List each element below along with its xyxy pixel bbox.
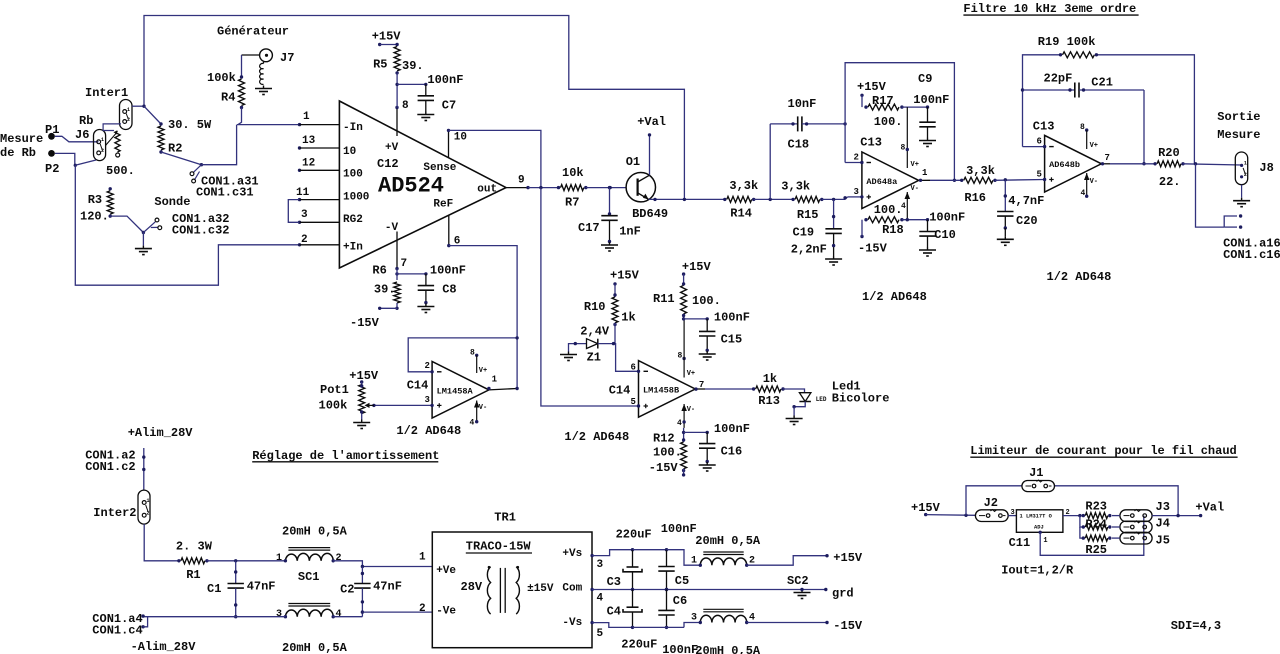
svg-text:-Vs: -Vs xyxy=(562,617,582,629)
svg-text:100.: 100. xyxy=(653,445,682,459)
svg-text:J1: J1 xyxy=(1029,466,1043,480)
label C9 xyxy=(918,72,932,86)
svg-text:+Alim_28V: +Alim_28V xyxy=(128,426,194,440)
svg-text:+15V: +15V xyxy=(682,260,712,274)
wire to +15V xyxy=(747,554,829,565)
capacitor C6 xyxy=(658,588,674,629)
svg-text:R17: R17 xyxy=(872,94,894,108)
label R19 100k xyxy=(1038,35,1096,49)
svg-text:C2: C2 xyxy=(340,583,354,597)
svg-text:V-: V- xyxy=(479,404,487,412)
pin 5 (1458B) xyxy=(541,188,648,409)
wire +In loop xyxy=(75,165,299,285)
pin 1 xyxy=(237,111,339,126)
resistor R19 xyxy=(1059,52,1098,58)
resistor R2 xyxy=(144,106,201,165)
label 1nF xyxy=(619,225,641,239)
svg-text:CON1.c16: CON1.c16 xyxy=(1223,248,1280,262)
svg-text:1: 1 xyxy=(492,374,498,384)
svg-text:100nF: 100nF xyxy=(913,93,949,107)
svg-text:39.: 39. xyxy=(374,282,396,296)
svg-text:7: 7 xyxy=(699,380,704,390)
label R18 xyxy=(882,223,904,237)
label C1 xyxy=(207,582,221,596)
svg-text:2. 3W: 2. 3W xyxy=(176,539,213,553)
svg-text:7: 7 xyxy=(401,258,408,270)
label C3 xyxy=(607,575,621,589)
svg-text:100.: 100. xyxy=(692,294,721,308)
label 100. (R17) xyxy=(874,115,903,129)
inductor SC1 coil 1-2 xyxy=(276,548,342,564)
supply +15V (R17) xyxy=(857,80,929,110)
pin 1 out (C13a) xyxy=(919,168,930,182)
label C14 (B) xyxy=(609,384,631,398)
label Z1 xyxy=(587,351,601,365)
connector J3 xyxy=(1112,510,1178,522)
svg-text:V+: V+ xyxy=(687,370,695,378)
label Bicolore xyxy=(832,392,890,406)
svg-text:C12: C12 xyxy=(377,157,399,171)
label +Alim_28V xyxy=(128,426,194,440)
label 100nF (C7) xyxy=(427,73,463,87)
label 100nF (C15) xyxy=(714,311,750,325)
label R15 xyxy=(797,208,819,222)
pin 7 out (1458B) xyxy=(694,380,705,391)
pin 3 (C13a) xyxy=(843,187,871,200)
node R6-C8 xyxy=(395,272,427,275)
wire R24 branch xyxy=(1080,516,1083,527)
svg-text:R4: R4 xyxy=(221,91,235,105)
supply -15V (R12) xyxy=(681,428,687,477)
label 100k (Pot1) xyxy=(319,399,348,413)
label 100nF (C5) xyxy=(661,522,697,536)
svg-text:-Ve: -Ve xyxy=(436,606,456,618)
label 100nF (C16) xyxy=(714,422,750,436)
svg-text:C8: C8 xyxy=(442,282,456,296)
op-amp C13 AD648a xyxy=(862,152,919,209)
wire C20 gnd stub xyxy=(1004,228,1006,236)
svg-text:30. 5W: 30. 5W xyxy=(168,118,212,132)
svg-text:C21: C21 xyxy=(1091,75,1113,89)
label CON1.c31 xyxy=(196,186,254,200)
svg-text:J2: J2 xyxy=(984,496,998,510)
svg-text:O1: O1 xyxy=(626,155,640,169)
label R7 xyxy=(565,196,579,210)
svg-text:R24: R24 xyxy=(1085,518,1107,532)
pin 6 (1458B) xyxy=(631,363,649,373)
label 20mH 0,5A (SC1 top) xyxy=(282,525,348,539)
label CON1.c16 xyxy=(1223,248,1280,262)
svg-text:500.: 500. xyxy=(106,164,135,178)
zener Z1 xyxy=(560,339,615,361)
capacitor C8 xyxy=(417,274,434,313)
label R24 xyxy=(1085,518,1107,532)
wire +Val xyxy=(1176,514,1202,517)
pin 2 (C13a) xyxy=(845,153,871,165)
V+ pin C13a xyxy=(901,107,919,169)
capacitor C20 xyxy=(997,180,1014,246)
svg-text:4: 4 xyxy=(677,419,682,428)
svg-text:R13: R13 xyxy=(758,394,780,408)
label 3,3k (R15) xyxy=(781,180,810,194)
wire C2 to TR1 -Ve xyxy=(362,611,432,613)
pin 1 out (1458A) xyxy=(487,374,519,390)
svg-text:Z1: Z1 xyxy=(587,351,601,365)
label -15V (R12) xyxy=(649,461,679,475)
svg-text:Sense: Sense xyxy=(423,162,456,174)
svg-text:+15V: +15V xyxy=(833,551,863,565)
svg-text:-Alim_28V: -Alim_28V xyxy=(131,640,197,654)
svg-text:grd: grd xyxy=(832,587,854,601)
label 100. (R11) xyxy=(692,294,721,308)
resistor R7 xyxy=(557,185,588,191)
svg-text:3: 3 xyxy=(691,613,697,624)
svg-text:R19 100k: R19 100k xyxy=(1038,35,1096,49)
svg-text:V-: V- xyxy=(911,185,919,193)
connector Sonde fork xyxy=(142,218,162,234)
capacitor C3 xyxy=(623,548,642,591)
svg-text:C19: C19 xyxy=(793,226,815,240)
svg-text:100nF: 100nF xyxy=(661,522,697,536)
svg-text:100.: 100. xyxy=(874,115,903,129)
label R1 xyxy=(186,568,200,582)
label 100nF (C10) xyxy=(929,211,965,225)
label J7 xyxy=(280,51,294,65)
label Mesure de Rb xyxy=(0,132,43,160)
svg-text:Limiteur de courant pour le fi: Limiteur de courant pour le fil chaud xyxy=(970,444,1236,458)
svg-text:C13: C13 xyxy=(1033,119,1055,133)
svg-text:+V: +V xyxy=(385,142,399,154)
svg-text:20mH 0,5A: 20mH 0,5A xyxy=(282,641,348,654)
svg-text:C6: C6 xyxy=(673,594,687,608)
label C17 xyxy=(578,221,600,235)
label 20mH 0,5A (SC2 bottom) xyxy=(695,644,761,654)
svg-text:5: 5 xyxy=(597,628,604,640)
label 39. (R6) xyxy=(374,282,396,296)
svg-text:P2: P2 xyxy=(45,162,59,176)
svg-text:1k: 1k xyxy=(621,310,635,324)
resistor R1 xyxy=(177,558,208,564)
title Filtre 10 kHz 3eme ordre xyxy=(963,2,1138,16)
svg-text:11: 11 xyxy=(296,187,310,199)
label 1k (R13) xyxy=(763,372,777,386)
svg-text:Sortie: Sortie xyxy=(1217,110,1260,124)
label 1/2 AD648 (a) xyxy=(862,290,927,304)
label R4 xyxy=(221,91,235,105)
svg-text:1: 1 xyxy=(922,168,928,178)
label Led1 xyxy=(832,380,861,394)
resistor R14 xyxy=(723,196,755,202)
label -Vs xyxy=(562,617,582,629)
svg-text:100nF: 100nF xyxy=(427,73,463,87)
label -Alim_28V xyxy=(131,640,197,654)
svg-text:100nF: 100nF xyxy=(714,311,750,325)
svg-text:220uF: 220uF xyxy=(621,638,657,652)
svg-text:J5: J5 xyxy=(1156,534,1170,548)
svg-text:100nF: 100nF xyxy=(714,422,750,436)
pin 8 +V xyxy=(395,100,409,136)
label J2 xyxy=(984,496,998,510)
wire grd rail xyxy=(667,588,828,599)
label -Ve xyxy=(436,606,456,618)
svg-text:AD524: AD524 xyxy=(378,174,444,199)
svg-text:220uF: 220uF xyxy=(616,528,652,542)
wire node to J6 bottom xyxy=(75,160,96,165)
wire sense-out xyxy=(449,130,541,187)
svg-text:C9: C9 xyxy=(918,72,932,86)
capacitor C19 xyxy=(825,199,842,265)
label C13 (b) xyxy=(1033,119,1055,133)
wire Inter1 pin2 to pot Rb xyxy=(103,124,121,131)
svg-text:4: 4 xyxy=(336,609,342,620)
connector J6 xyxy=(94,130,106,161)
supply -15V (R18) xyxy=(858,217,929,256)
pin 10 Sense xyxy=(447,129,467,158)
wire feedback loop C13a xyxy=(845,63,956,182)
V- pin C13a xyxy=(901,185,919,220)
wire emitter row xyxy=(649,198,725,201)
V+ pin 1458B xyxy=(678,320,696,379)
label -15V (R6) xyxy=(350,316,380,330)
terminal P1 xyxy=(45,123,59,140)
svg-text:+Val: +Val xyxy=(1195,501,1224,515)
label TRACO-15W xyxy=(466,540,532,554)
svg-text:4: 4 xyxy=(470,419,475,428)
label SDI=4,3 xyxy=(1171,619,1221,633)
svg-text:3: 3 xyxy=(301,209,308,221)
label C7 xyxy=(442,99,456,113)
pin 6 (C13b) xyxy=(1023,137,1054,149)
resistor R6 xyxy=(378,269,400,310)
wire bottom rail xyxy=(143,616,362,618)
svg-text:1: 1 xyxy=(127,107,130,113)
svg-text:3: 3 xyxy=(1011,509,1015,517)
svg-text:+In: +In xyxy=(343,242,363,254)
resistor R4 xyxy=(238,55,245,125)
svg-text:120.: 120. xyxy=(80,209,109,223)
svg-text:LED: LED xyxy=(816,396,827,403)
label 2 (TR1 in) xyxy=(419,603,426,615)
svg-text:V-: V- xyxy=(1090,178,1098,186)
wire feedback 1458A xyxy=(408,336,519,373)
pin 5 (C13b) xyxy=(1037,170,1054,182)
wire R14-R15 xyxy=(754,198,793,201)
svg-text:-In: -In xyxy=(343,122,363,134)
resistor R16 xyxy=(960,177,997,183)
connector J2 xyxy=(975,510,1008,522)
wire generator net (top loop) xyxy=(144,16,684,200)
V- pin 1458A xyxy=(470,401,488,428)
title Reglage de l'amortissement xyxy=(252,449,439,463)
label -15V (psu) xyxy=(833,619,863,633)
label +Val (limiter) xyxy=(1195,501,1224,515)
label Inter1 xyxy=(85,86,128,100)
label C4 xyxy=(607,605,621,619)
svg-text:2: 2 xyxy=(301,234,308,246)
label 10nF (C18) xyxy=(788,97,817,111)
svg-text:2: 2 xyxy=(425,361,430,371)
svg-text:ADJ: ADJ xyxy=(1034,525,1044,531)
svg-text:Iout=1,2/R: Iout=1,2/R xyxy=(1001,563,1074,577)
svg-text:V+: V+ xyxy=(1090,142,1098,150)
svg-text:R23: R23 xyxy=(1085,500,1107,514)
svg-text:+15V: +15V xyxy=(349,369,379,383)
label C2 xyxy=(340,583,354,597)
label 2. 3W xyxy=(176,539,213,553)
V- pin 1458B xyxy=(677,404,695,428)
inductor SC1 coil 3-4 xyxy=(276,604,342,621)
label 100nF (C6) xyxy=(662,643,698,654)
connector CON1.4 xyxy=(92,612,147,637)
svg-text:47nF: 47nF xyxy=(247,579,276,593)
svg-text:C1: C1 xyxy=(207,582,221,596)
capacitor C18 xyxy=(770,116,847,199)
connector J7 xyxy=(242,49,273,95)
svg-text:J6: J6 xyxy=(75,128,89,142)
svg-text:C13: C13 xyxy=(860,136,882,150)
capacitor C9 xyxy=(919,107,936,146)
label C5 xyxy=(675,574,689,588)
label Inter2 xyxy=(93,506,136,520)
wire to CON1.16 xyxy=(1196,164,1225,227)
label 2,2nF xyxy=(791,243,827,257)
resistor R3 xyxy=(107,187,113,218)
connector CON1.a31 fork xyxy=(190,165,201,183)
label R20 xyxy=(1158,146,1180,160)
svg-text:8: 8 xyxy=(901,144,906,153)
pin 7 -V xyxy=(395,232,407,271)
label C21 xyxy=(1091,75,1113,89)
label +15V (limiter) xyxy=(911,501,941,516)
label CON1.a32 xyxy=(172,212,230,226)
svg-text:-15V: -15V xyxy=(833,619,863,633)
V+ pin C13b xyxy=(1080,123,1098,150)
title Limiteur de courant pour le fil chaud xyxy=(970,444,1237,458)
svg-text:4,7nF: 4,7nF xyxy=(1008,194,1044,208)
svg-text:2: 2 xyxy=(101,148,104,154)
svg-text:CON1.c2: CON1.c2 xyxy=(85,460,135,474)
capacitor C10 xyxy=(919,220,936,256)
svg-text:13: 13 xyxy=(302,135,316,147)
label R13 xyxy=(758,394,780,408)
label 100. (R12) xyxy=(653,445,682,459)
resistor R24 xyxy=(1082,524,1112,530)
connector J4 xyxy=(1112,521,1152,533)
label R2 xyxy=(168,142,182,156)
wire R3 to sonde xyxy=(110,216,143,232)
label C6 xyxy=(673,594,687,608)
capacitor C16 xyxy=(684,431,716,471)
node R5-C7 xyxy=(395,83,427,86)
label 39. (R5) xyxy=(402,59,424,73)
label TR1 xyxy=(494,511,516,525)
op-amp C13 AD648b xyxy=(1045,135,1102,192)
svg-text:2: 2 xyxy=(127,117,130,123)
pin 13 xyxy=(298,135,340,150)
svg-text:R6: R6 xyxy=(372,264,386,278)
svg-text:C18: C18 xyxy=(788,138,810,152)
svg-text:1: 1 xyxy=(1244,161,1247,167)
op-amp C14 LM1458B xyxy=(639,361,696,418)
svg-text:C16: C16 xyxy=(721,445,743,459)
svg-text:6: 6 xyxy=(1037,137,1042,147)
resistor R23 xyxy=(1082,513,1112,519)
svg-text:1: 1 xyxy=(419,552,426,564)
label J8 xyxy=(1259,161,1273,175)
svg-text:C11: C11 xyxy=(1009,536,1031,550)
svg-text:Rb: Rb xyxy=(79,114,93,128)
svg-text:8: 8 xyxy=(1080,123,1085,132)
V- pin C13b xyxy=(1081,173,1099,198)
label R25 xyxy=(1085,543,1107,557)
label Sonde xyxy=(154,195,190,209)
pin 3 (1458A) xyxy=(372,395,441,408)
svg-text:C4: C4 xyxy=(607,605,621,619)
resistor R13 xyxy=(752,386,785,392)
svg-text:1: 1 xyxy=(147,498,150,504)
wire to -15V xyxy=(747,621,829,624)
label R3 xyxy=(88,193,102,207)
svg-text:1nF: 1nF xyxy=(619,225,641,239)
svg-text:R25: R25 xyxy=(1085,543,1107,557)
svg-text:100nF: 100nF xyxy=(929,211,965,225)
supply +15V (R10) xyxy=(610,269,640,344)
label 3,3k (R16) xyxy=(966,164,995,178)
svg-text:+15V: +15V xyxy=(610,269,640,283)
svg-text:Inter2: Inter2 xyxy=(93,506,136,520)
supply +15V (R5) xyxy=(372,29,402,107)
svg-text:LM1458B: LM1458B xyxy=(643,385,679,395)
wire -Vs out xyxy=(590,621,632,640)
label 20mH 0,5A (SC1 bottom) xyxy=(282,641,348,654)
label CON1.a16 xyxy=(1223,237,1280,251)
capacitor C4 xyxy=(623,590,642,630)
svg-text:100nF: 100nF xyxy=(662,643,698,654)
svg-text:100: 100 xyxy=(343,168,363,180)
svg-text:R18: R18 xyxy=(882,223,904,237)
svg-text:R2: R2 xyxy=(168,142,182,156)
svg-text:1: 1 xyxy=(1043,537,1047,545)
svg-text:20mH 0,5A: 20mH 0,5A xyxy=(695,644,761,654)
label R6 xyxy=(372,264,386,278)
svg-text:C14: C14 xyxy=(609,384,631,398)
wire R20 to J8 xyxy=(1183,162,1242,165)
connector J5 xyxy=(1112,532,1152,544)
capacitor C2 xyxy=(354,567,370,617)
svg-text:+Vs: +Vs xyxy=(562,548,582,560)
svg-text:R1: R1 xyxy=(186,568,200,582)
label 1/2 AD648 (2a) xyxy=(396,424,461,438)
svg-text:ReF: ReF xyxy=(433,198,453,210)
label J3 xyxy=(1156,500,1170,514)
svg-text:4: 4 xyxy=(597,593,604,605)
svg-text:R10: R10 xyxy=(584,300,606,314)
capacitor C5 xyxy=(658,550,674,592)
svg-text:20mH 0,5A: 20mH 0,5A xyxy=(695,534,761,548)
svg-text:AD648a: AD648a xyxy=(866,177,897,187)
svg-text:out: out xyxy=(477,183,497,195)
resistor R15 xyxy=(791,196,823,202)
svg-text:SDI=4,3: SDI=4,3 xyxy=(1171,619,1221,633)
label 4,7nF xyxy=(1008,194,1044,208)
op-amp C12 AD524 xyxy=(339,101,506,268)
svg-text:47nF: 47nF xyxy=(373,579,402,593)
svg-text:28V: 28V xyxy=(461,580,483,594)
svg-text:J8: J8 xyxy=(1259,161,1273,175)
label 1/2 AD648 (2b) xyxy=(564,430,629,444)
svg-text:3,3k: 3,3k xyxy=(781,180,810,194)
label 3,3k (R14) xyxy=(729,179,758,193)
